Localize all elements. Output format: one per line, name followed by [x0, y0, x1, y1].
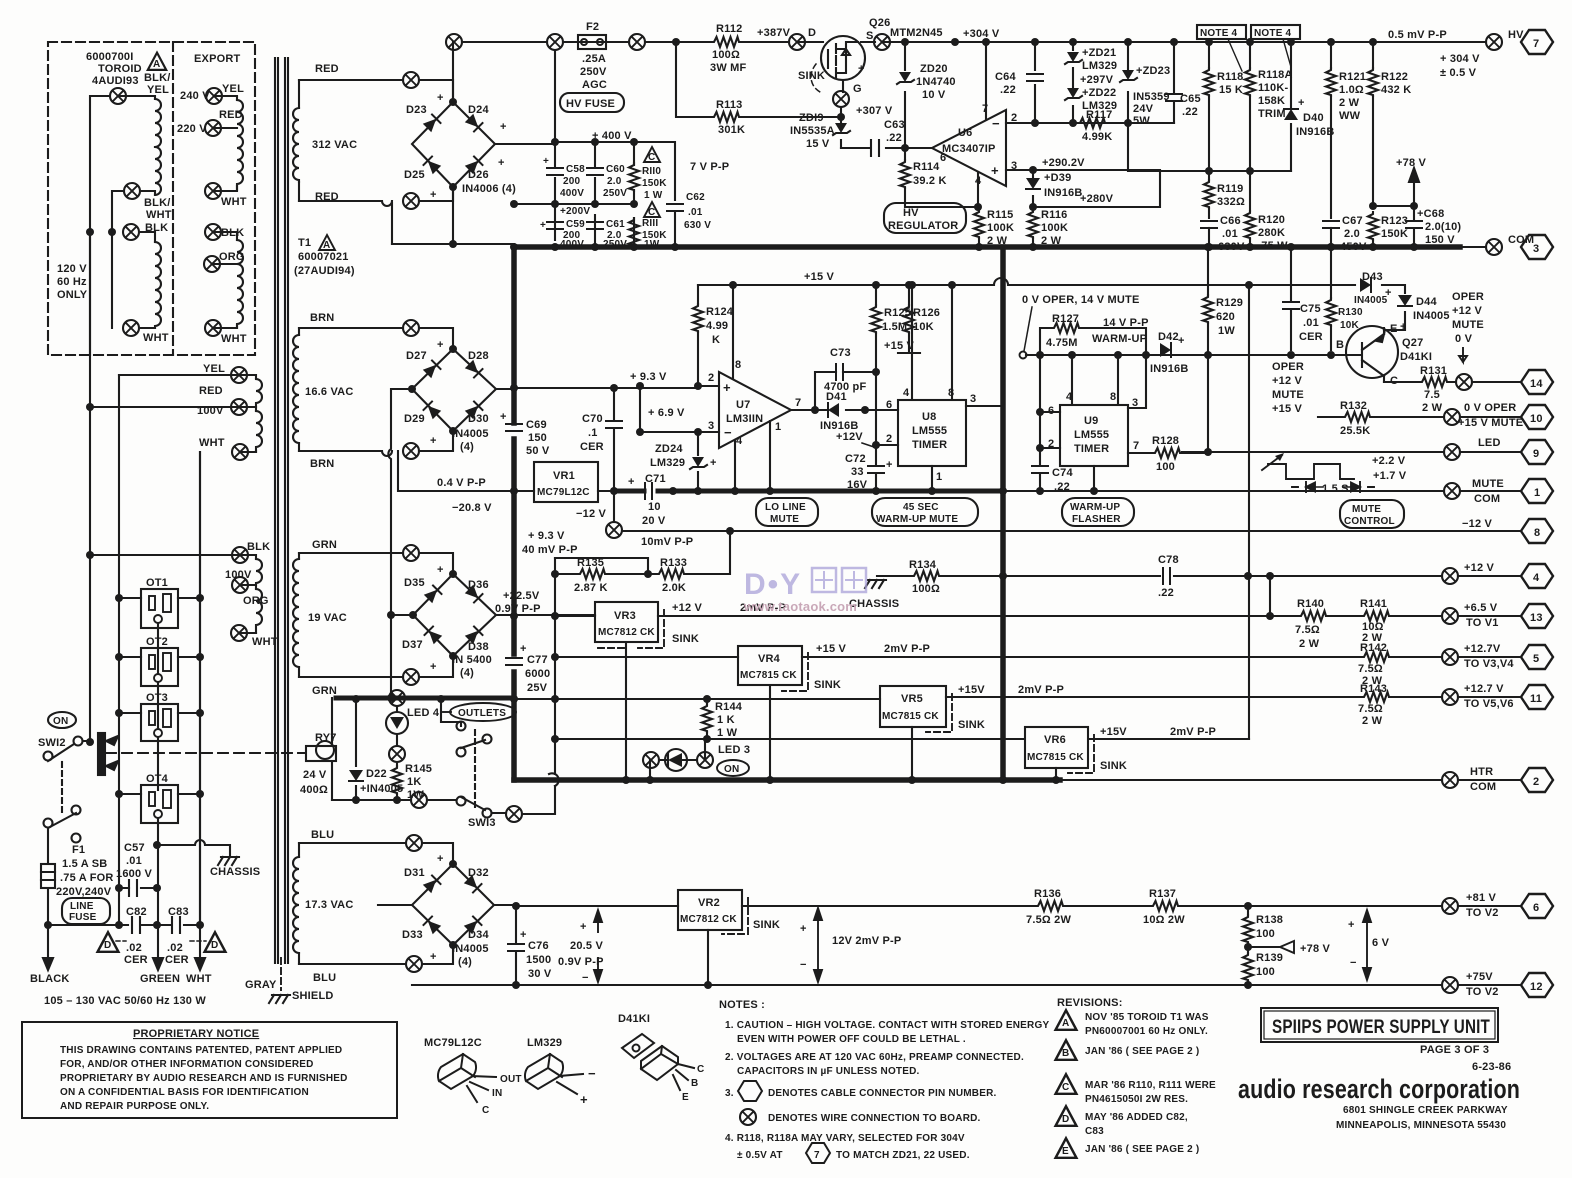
svg-text:4AUDI93: 4AUDI93 — [92, 75, 139, 87]
chassis ground branch — [157, 840, 230, 855]
svg-text:SINK: SINK — [814, 679, 841, 691]
capacitor C75 — [1290, 247, 1292, 350]
node HV connector 7 — [1486, 34, 1502, 50]
resistor R118A — [1249, 42, 1251, 171]
capacitor C72 — [875, 445, 877, 491]
timer U8 LM555 — [898, 400, 966, 466]
svg-text:ON A CONFIDENTIAL BASIS FOR ID: ON A CONFIDENTIAL BASIS FOR IDENTIFICATI… — [60, 1087, 309, 1098]
svg-text:VR6: VR6 — [1044, 734, 1066, 746]
capacitor C60 — [587, 168, 603, 175]
svg-text:R139: R139 — [1256, 952, 1283, 964]
svg-text:MTM2N45: MTM2N45 — [890, 27, 943, 39]
svg-text:+ZD21: +ZD21 — [1082, 47, 1116, 59]
svg-text:1: 1 — [775, 421, 781, 433]
svg-text:1.5 A SB: 1.5 A SB — [62, 858, 107, 870]
svg-text:17.3 VAC: 17.3 VAC — [305, 899, 353, 911]
capacitor C82 — [48, 917, 157, 933]
svg-text:E: E — [682, 1092, 689, 1103]
-12V / 10mV line to pin 8 — [622, 530, 1521, 532]
svg-text:IN4006 (4): IN4006 (4) — [462, 183, 516, 195]
svg-text:MC7812 CK: MC7812 CK — [680, 914, 737, 925]
zener ZD19 — [840, 117, 842, 148]
svg-text:ZD24: ZD24 — [655, 443, 683, 455]
svg-text:D26: D26 — [468, 169, 489, 181]
svg-text:R136: R136 — [1034, 888, 1061, 900]
svg-text:D38: D38 — [468, 641, 489, 653]
svg-text:BLK: BLK — [221, 227, 244, 239]
svg-text:+: + — [580, 921, 587, 933]
svg-text:R118: R118 — [1217, 71, 1244, 83]
svg-text:U7: U7 — [736, 399, 750, 411]
transistor Q27 — [1346, 326, 1398, 378]
LO LINE MUTE callout — [756, 498, 818, 526]
line 14 output — [1384, 381, 1456, 383]
svg-text:SWI3: SWI3 — [468, 817, 496, 829]
resistor R119 — [1208, 171, 1210, 218]
svg-text:.01: .01 — [688, 207, 703, 218]
svg-text:MUTE: MUTE — [1352, 504, 1381, 515]
svg-text:+: + — [991, 163, 999, 178]
svg-text:24V: 24V — [1133, 103, 1154, 115]
svg-text:NOV '85 TOROID T1 WAS: NOV '85 TOROID T1 WAS — [1085, 1012, 1209, 1023]
svg-text:2 W: 2 W — [1299, 638, 1320, 650]
svg-text:3: 3 — [1533, 243, 1539, 255]
svg-text:T1: T1 — [298, 237, 311, 249]
svg-text:4700 pF: 4700 pF — [824, 381, 866, 393]
svg-text:4: 4 — [736, 435, 743, 447]
diode D43 — [1382, 285, 1405, 293]
svg-text:PAGE 3 OF 3: PAGE 3 OF 3 — [1420, 1044, 1489, 1056]
svg-text:20 V: 20 V — [642, 515, 666, 527]
svg-text:100: 100 — [1256, 966, 1275, 978]
U8 pin1 wire — [931, 466, 933, 491]
svg-text:100K: 100K — [987, 222, 1014, 234]
svg-text:CAPACITORS IN µF UNLESS NOTED: CAPACITORS IN µF UNLESS NOTED. — [737, 1066, 920, 1077]
LED 4 — [389, 690, 405, 706]
svg-text:CER: CER — [124, 954, 148, 966]
resistor R123 — [1372, 240, 1374, 247]
svg-text:A: A — [1062, 1018, 1069, 1029]
svg-text:6000: 6000 — [525, 668, 550, 680]
svg-text:(4): (4) — [460, 441, 474, 453]
regulator VR3 — [595, 602, 658, 642]
svg-text:TO V2: TO V2 — [1466, 986, 1499, 998]
svg-text:D23: D23 — [406, 104, 427, 116]
svg-text:+ZD23: +ZD23 — [1136, 65, 1170, 77]
svg-text:+1.7 V: +1.7 V — [1373, 470, 1407, 482]
op-amp U7 — [719, 372, 791, 448]
svg-text:10K: 10K — [1340, 320, 1360, 331]
svg-text:40 mV P-P: 40 mV P-P — [522, 544, 578, 556]
node 220V RED — [205, 120, 221, 136]
12V p-p annotation — [814, 908, 822, 982]
svg-text:HV: HV — [903, 207, 919, 219]
node WHT — [231, 625, 247, 641]
svg-text:7: 7 — [1133, 440, 1139, 452]
svg-text:1K: 1K — [407, 776, 421, 788]
svg-text:7: 7 — [814, 1150, 820, 1161]
svg-text:8: 8 — [1110, 391, 1116, 403]
U7 pin1 wire — [769, 421, 771, 491]
svg-text:VR1: VR1 — [553, 470, 575, 482]
svg-text:10Ω 2W: 10Ω 2W — [1143, 914, 1185, 926]
svg-text:+280V: +280V — [1080, 193, 1114, 205]
svg-text:−12 V: −12 V — [576, 508, 607, 520]
svg-text:+: + — [498, 157, 505, 169]
VR2 ground pin — [707, 930, 709, 985]
rectifier bridge D27-D30 — [388, 349, 514, 615]
svg-text:+D39: +D39 — [1044, 172, 1071, 184]
resistor R133 — [648, 531, 730, 574]
resistor R130 — [1330, 247, 1332, 350]
svg-text:R140: R140 — [1297, 598, 1324, 610]
svg-text:GRN: GRN — [312, 685, 337, 697]
svg-text:4: 4 — [903, 387, 910, 399]
svg-text:1600 V: 1600 V — [116, 868, 153, 880]
svg-text:R118A: R118A — [1258, 69, 1293, 81]
resistor R135 — [555, 573, 648, 575]
svg-text:BLK: BLK — [247, 541, 270, 553]
svg-text:AGC: AGC — [582, 79, 607, 91]
resistor R144 — [706, 699, 708, 739]
svg-text:+: + — [500, 121, 507, 133]
svg-text:+: + — [800, 923, 807, 935]
svg-text:ZD20: ZD20 — [920, 63, 948, 75]
svg-text:100V: 100V — [225, 569, 252, 581]
svg-text:IN4005: IN4005 — [452, 943, 489, 955]
svg-text:LM555: LM555 — [1074, 429, 1109, 441]
svg-text:+: + — [540, 220, 546, 231]
node 240V YEL — [206, 88, 222, 104]
svg-text:14 V P-P: 14 V P-P — [1103, 317, 1149, 329]
svg-text:−: − — [724, 425, 732, 440]
svg-text:ORG: ORG — [219, 251, 245, 263]
svg-text:MAR '86 R110, R111 WERE: MAR '86 R110, R111 WERE — [1085, 1080, 1216, 1091]
VR2 output line — [742, 905, 1521, 907]
svg-text:+78 V: +78 V — [1300, 943, 1331, 955]
svg-text:6 V: 6 V — [1372, 937, 1390, 949]
svg-text:D31: D31 — [404, 867, 425, 879]
svg-text:COM: COM — [1474, 493, 1500, 505]
svg-text:R145: R145 — [405, 763, 432, 775]
svg-text:D43: D43 — [1362, 271, 1383, 283]
outlet OT4 — [141, 785, 178, 823]
COM bus (thick) — [392, 244, 1486, 247]
rectifier bridge D35-D38 — [391, 574, 595, 698]
svg-text:PN4615050I 2W RES.: PN4615050I 2W RES. — [1085, 1094, 1188, 1105]
svg-text:250V: 250V — [603, 188, 627, 199]
svg-text:+81 V: +81 V — [1466, 892, 1497, 904]
svg-text:VR4: VR4 — [758, 653, 781, 665]
svg-text:A: A — [153, 59, 160, 70]
svg-text:+ZD22: +ZD22 — [1082, 87, 1116, 99]
+78V arrow flag — [1373, 168, 1419, 206]
svg-text:IN 5400: IN 5400 — [452, 654, 492, 666]
svg-text:NOTE 4: NOTE 4 — [1254, 28, 1292, 39]
svg-text:audio research corporation: audio research corporation — [1238, 1074, 1520, 1104]
HV FUSE callout — [560, 93, 624, 112]
svg-text:+: + — [723, 380, 731, 395]
svg-text:R133: R133 — [660, 557, 687, 569]
capacitor C63 — [841, 140, 932, 156]
svg-text:PROPRIETARY BY AUDIO RESEARCH: PROPRIETARY BY AUDIO RESEARCH AND IS FUR… — [60, 1073, 348, 1084]
svg-text:G: G — [853, 83, 862, 95]
svg-text:LED 3: LED 3 — [718, 744, 750, 756]
svg-text:TRIM: TRIM — [1258, 108, 1286, 120]
capacitor C66 — [1201, 221, 1217, 228]
svg-text:150K: 150K — [642, 178, 667, 189]
svg-text:2.0: 2.0 — [1344, 228, 1360, 240]
svg-text:120 V: 120 V — [57, 263, 87, 275]
svg-text:+12 V: +12 V — [672, 602, 703, 614]
svg-text:−: − — [800, 959, 807, 971]
svg-text:C73: C73 — [830, 347, 851, 359]
svg-text:100Ω: 100Ω — [712, 49, 740, 61]
svg-text:GRAY: GRAY — [245, 979, 277, 991]
timer U9 LM555 — [1060, 405, 1128, 466]
capacitor C57 — [119, 880, 157, 896]
mechanical dashed link SW12 to RY7 — [106, 752, 306, 754]
svg-text:CER: CER — [1299, 331, 1323, 343]
svg-text:100K: 100K — [1041, 222, 1068, 234]
svg-text:2.0(10): 2.0(10) — [1425, 221, 1461, 233]
primary winding EXPORT — [212, 96, 243, 328]
svg-text:RIII: RIII — [642, 218, 658, 229]
svg-text:C66: C66 — [1220, 215, 1241, 227]
svg-text:+12.7 V: +12.7 V — [1464, 683, 1504, 695]
svg-text:C: C — [648, 207, 655, 218]
svg-text:www.taotaok.com: www.taotaok.com — [743, 599, 857, 614]
svg-text:12: 12 — [1530, 981, 1543, 993]
VR4 lower pin — [769, 685, 771, 780]
capacitor C69 — [506, 424, 522, 431]
diode D44 — [1384, 312, 1405, 330]
svg-text:+: + — [437, 853, 444, 865]
svg-text:7: 7 — [1533, 38, 1539, 50]
svg-text:8: 8 — [1534, 527, 1540, 539]
pin7 wire — [985, 42, 987, 120]
svg-text:JAN '86 ( SEE PAGE 2 ): JAN '86 ( SEE PAGE 2 ) — [1085, 1144, 1199, 1155]
svg-text:BLACK: BLACK — [30, 973, 70, 985]
svg-text:D30: D30 — [468, 413, 489, 425]
svg-text:20.5 V: 20.5 V — [570, 940, 603, 952]
vertical riser to line4 — [1248, 285, 1250, 739]
svg-text:TO V1: TO V1 — [1466, 617, 1499, 629]
svg-text:+387V: +387V — [757, 27, 791, 39]
svg-text:LINE: LINE — [70, 901, 94, 912]
svg-text:IN: IN — [492, 1088, 502, 1099]
svg-text:TOROID: TOROID — [98, 63, 142, 75]
resistor R111 — [629, 218, 639, 246]
svg-text:+: + — [1348, 919, 1355, 931]
svg-text:+2.2 V: +2.2 V — [1372, 455, 1406, 467]
LED line 9 — [1182, 451, 1521, 453]
zener ZD23 — [1127, 42, 1129, 123]
svg-text:R121: R121 — [1339, 71, 1366, 83]
svg-text:250V: 250V — [580, 66, 607, 78]
svg-text:5: 5 — [1533, 653, 1539, 665]
svg-text:LM329: LM329 — [527, 1037, 562, 1049]
svg-text:D37: D37 — [402, 639, 423, 651]
svg-text:ONLY: ONLY — [57, 289, 88, 301]
svg-text:620: 620 — [1216, 311, 1235, 323]
svg-text:3W MF: 3W MF — [710, 62, 747, 74]
svg-text:WHT: WHT — [221, 196, 247, 208]
svg-text:RED: RED — [219, 109, 243, 121]
svg-text:−: − — [992, 116, 1000, 131]
svg-text:WHT: WHT — [143, 332, 169, 344]
svg-text:EXPORT: EXPORT — [194, 53, 241, 65]
node ORG — [204, 256, 220, 272]
svg-text:332Ω: 332Ω — [1217, 196, 1245, 208]
svg-text:D28: D28 — [468, 350, 489, 362]
node BRN top — [403, 320, 419, 336]
svg-text:C83: C83 — [1085, 1126, 1104, 1137]
svg-text:158K: 158K — [1258, 95, 1285, 107]
U9 pin3 wire — [1128, 355, 1146, 408]
svg-text:+15V: +15V — [1100, 726, 1127, 738]
node WHT — [205, 320, 221, 336]
svg-text:.1: .1 — [588, 427, 598, 439]
capacitor C64 — [1034, 42, 1036, 123]
svg-text:R124: R124 — [706, 306, 734, 318]
svg-text:+ 9.3 V: + 9.3 V — [630, 371, 667, 383]
svg-text:MC7815 CK: MC7815 CK — [882, 711, 939, 722]
svg-text:RED: RED — [315, 63, 339, 75]
svg-text:.02: .02 — [126, 942, 142, 954]
U9 pin1 wire — [1093, 466, 1095, 491]
resistor R129 — [1207, 247, 1209, 452]
VR5 lower pin — [911, 727, 913, 780]
revision triangle A — [148, 53, 166, 70]
relay RY7 — [306, 698, 336, 800]
resistor R141 — [1362, 611, 1391, 621]
svg-text:R127: R127 — [1052, 313, 1079, 325]
resistor R118 — [1208, 42, 1210, 171]
svg-text:LM3IIN: LM3IIN — [726, 413, 763, 425]
svg-text:R113: R113 — [716, 99, 743, 111]
svg-text:2: 2 — [708, 372, 714, 384]
resistor R113 — [676, 42, 841, 117]
svg-text:+: + — [710, 457, 717, 469]
svg-text:WHT: WHT — [252, 636, 278, 648]
svg-text:R138: R138 — [1256, 914, 1283, 926]
resistor R114 — [905, 148, 979, 207]
svg-text:LO LINE: LO LINE — [765, 502, 806, 513]
svg-text:R126: R126 — [913, 307, 940, 319]
svg-text:R132: R132 — [1340, 400, 1367, 412]
transformer primary dashed box — [48, 42, 255, 355]
svg-text:7 V P-P: 7 V P-P — [690, 161, 729, 173]
svg-text:SINK: SINK — [672, 633, 699, 645]
capacitor C59 — [547, 222, 563, 229]
wire F2 down to +400V rail — [554, 50, 556, 142]
svg-text:YEL: YEL — [222, 83, 244, 95]
capacitor C62 — [667, 204, 683, 211]
svg-text:IN5535A: IN5535A — [790, 125, 835, 137]
svg-text:ORG: ORG — [243, 595, 269, 607]
svg-text:−: − — [582, 972, 589, 984]
svg-text:+75V: +75V — [1466, 971, 1493, 983]
HV REGULATOR callout — [884, 203, 966, 233]
svg-text:LM329: LM329 — [650, 457, 685, 469]
svg-text:C83: C83 — [168, 906, 189, 918]
svg-text:OUTLETS: OUTLETS — [458, 708, 506, 719]
svg-text:C60: C60 — [606, 164, 625, 175]
svg-text:.22: .22 — [886, 132, 902, 144]
svg-text:+: + — [1178, 335, 1185, 347]
svg-text:SHIELD: SHIELD — [292, 990, 334, 1002]
resistor R110 — [629, 163, 639, 191]
svg-text:NOTE 4: NOTE 4 — [1200, 28, 1238, 39]
node WHT — [123, 320, 139, 336]
svg-text:100Ω: 100Ω — [912, 583, 940, 595]
svg-text:39.2 K: 39.2 K — [913, 175, 947, 187]
+15V rail — [698, 278, 1355, 285]
capacitor C61 — [587, 222, 603, 229]
svg-text:D: D — [1062, 1114, 1069, 1125]
svg-text:+ 400 V: + 400 V — [592, 130, 632, 142]
svg-text:+15 V MUTE: +15 V MUTE — [1458, 417, 1523, 429]
svg-text:1500: 1500 — [526, 954, 551, 966]
svg-text:33: 33 — [851, 466, 864, 478]
line 10 / resistor R132 — [1318, 416, 1444, 418]
outlet OT3 — [141, 704, 178, 741]
svg-text:WHT: WHT — [199, 437, 225, 449]
regulator VR1 — [534, 462, 598, 502]
svg-text:C57: C57 — [124, 842, 145, 854]
pin2 feed line +9.3V — [514, 387, 698, 389]
svg-text:1N4740: 1N4740 — [916, 76, 956, 88]
svg-text:MC3407IP: MC3407IP — [942, 143, 996, 155]
svg-text:C62: C62 — [686, 192, 705, 203]
svg-text:TIMER: TIMER — [1074, 443, 1109, 455]
svg-text:VR3: VR3 — [614, 610, 636, 622]
svg-text:19 VAC: 19 VAC — [308, 612, 347, 624]
svg-text:4.75M: 4.75M — [1046, 337, 1078, 349]
node BRN bottom — [403, 443, 419, 459]
svg-text:2 W: 2 W — [1422, 402, 1443, 414]
svg-text:D24: D24 — [468, 104, 489, 116]
svg-text:SINK: SINK — [1100, 760, 1127, 772]
DC line into VR2 — [514, 905, 678, 907]
diode D22 — [355, 699, 357, 800]
svg-text:C71: C71 — [645, 473, 666, 485]
svg-text:+: + — [520, 929, 527, 941]
svg-text:WARM-UP: WARM-UP — [1092, 333, 1147, 345]
svg-text:45 SEC: 45 SEC — [903, 502, 939, 513]
secondary winding 16.6 VAC — [293, 328, 453, 456]
node COM connector 3 — [1486, 239, 1502, 255]
svg-text:± 0.5 V: ± 0.5 V — [1440, 67, 1477, 79]
svg-text:± 0.5V AT: ± 0.5V AT — [737, 1150, 783, 1161]
svg-text:(27AUDI94): (27AUDI94) — [294, 265, 355, 277]
svg-text:2: 2 — [1533, 776, 1539, 788]
svg-text:+307 V: +307 V — [856, 105, 893, 117]
svg-text:RED: RED — [199, 385, 223, 397]
node G / gate — [833, 91, 849, 107]
svg-text:R112: R112 — [716, 23, 743, 35]
node BLU bottom — [406, 956, 422, 972]
svg-text:PROPRIETARY NOTICE: PROPRIETARY NOTICE — [133, 1028, 259, 1040]
svg-text:PN60007001 60 Hz ONLY.: PN60007001 60 Hz ONLY. — [1085, 1026, 1208, 1037]
node WHT — [232, 444, 248, 460]
svg-text:IN4005: IN4005 — [1413, 310, 1450, 322]
top HV bus — [462, 41, 1486, 43]
svg-text:HV FUSE: HV FUSE — [566, 98, 615, 110]
svg-text:A: A — [323, 240, 330, 251]
svg-text:D•Y: D•Y — [744, 568, 802, 601]
